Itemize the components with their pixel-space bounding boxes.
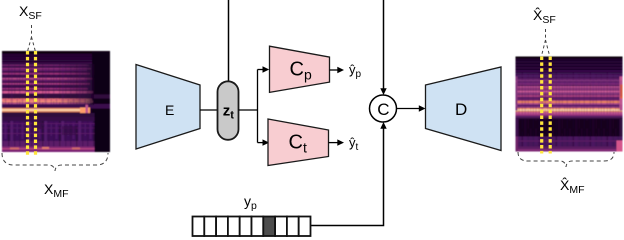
concat node C	[370, 95, 397, 122]
encoder E	[136, 65, 200, 150]
svg-text:yp: yp	[244, 193, 257, 212]
dashed pointer from X_SF to highlighted frames	[28, 25, 36, 51]
svg-text:XSF: XSF	[19, 3, 42, 22]
latent z_t	[218, 81, 239, 140]
dashed pointer from Xhat_SF to highlighted frames	[542, 29, 550, 55]
underbrace below output spectrogram	[518, 152, 614, 167]
wire E to z_t	[200, 109, 218, 111]
wire z_t to junction	[239, 109, 258, 111]
svg-text:X̂MF: X̂MF	[560, 177, 585, 196]
underbrace below input spectrogram	[2, 153, 108, 171]
svg-text:ŷt: ŷt	[349, 135, 359, 153]
output spectrogram Xhat	[516, 57, 623, 154]
wire from top into concat C	[380, 0, 386, 95]
junction vertical wire	[257, 70, 259, 143]
arrow into C_t	[258, 139, 270, 145]
svg-text:XMF: XMF	[44, 181, 69, 200]
label yhat_t	[349, 135, 359, 153]
svg-text:D: D	[455, 100, 467, 119]
label y_p	[244, 193, 257, 212]
label X_MF	[44, 181, 69, 200]
decoder D	[426, 67, 502, 151]
svg-text:E: E	[165, 102, 174, 118]
classifier C_t	[268, 119, 329, 166]
arrow C to D	[397, 105, 426, 111]
wire from y_p vector up into C	[311, 122, 387, 226]
arrow C_p to y_p	[330, 67, 345, 73]
input spectrogram X	[2, 51, 110, 156]
label Xhat_SF	[533, 7, 556, 26]
highlighted frame (yellow dotted)	[28, 51, 36, 156]
classifier C_p	[270, 46, 330, 92]
wire from top into z_t	[228, 0, 230, 82]
active class cell	[263, 217, 275, 237]
svg-text:X̂SF: X̂SF	[533, 7, 556, 26]
svg-text:C: C	[377, 100, 389, 119]
label X_SF	[19, 3, 42, 22]
svg-text:ŷp: ŷp	[349, 62, 362, 80]
one-hot vector y_p	[193, 217, 311, 237]
arrow into C_p	[258, 66, 270, 72]
highlighted frame (yellow dotted)	[542, 57, 551, 154]
label Xhat_MF	[560, 177, 585, 196]
label yhat_p	[349, 62, 362, 80]
arrow C_t to y_t	[329, 139, 345, 145]
